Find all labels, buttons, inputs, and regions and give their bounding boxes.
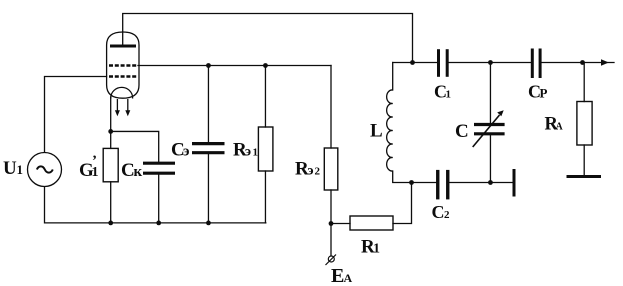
- svg-text:1: 1: [17, 162, 24, 177]
- svg-text:E: E: [331, 265, 344, 286]
- svg-text:Р: Р: [540, 86, 548, 101]
- svg-text:1: 1: [253, 147, 259, 159]
- svg-text:э: э: [183, 144, 189, 160]
- svg-text:A: A: [556, 122, 564, 133]
- svg-text:C: C: [455, 121, 469, 142]
- svg-text:2: 2: [444, 209, 450, 221]
- svg-text:A: A: [344, 271, 353, 285]
- svg-text:1: 1: [373, 242, 380, 257]
- svg-text:’: ’: [92, 153, 97, 169]
- svg-text:э: э: [245, 145, 251, 160]
- svg-text:C: C: [432, 202, 445, 222]
- svg-text:к: к: [134, 164, 143, 180]
- svg-text:1: 1: [446, 89, 452, 101]
- svg-text:U: U: [3, 158, 17, 179]
- svg-text:э: э: [308, 164, 314, 179]
- svg-text:L: L: [370, 121, 383, 142]
- svg-text:2: 2: [315, 166, 321, 178]
